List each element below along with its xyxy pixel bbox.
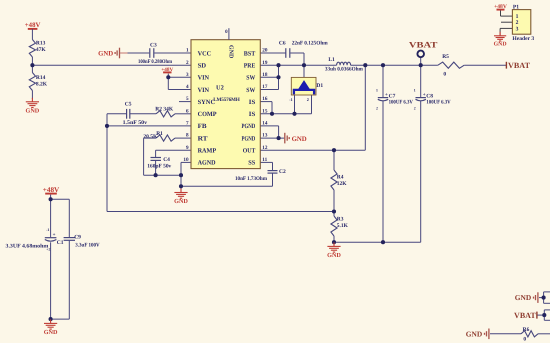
svg-text:R13: R13 (36, 40, 46, 46)
svg-text:5: 5 (186, 96, 189, 102)
svg-text:C4: C4 (163, 157, 170, 163)
svg-text:AGND: AGND (198, 160, 216, 167)
P1 pin 3 lead (500, 27, 512, 29)
wire D1 anode pin 2 (311, 93, 313, 114)
connector P1 body (512, 10, 530, 35)
wire OUT pin12 (260, 149, 365, 151)
wire C8 branch upper (420, 65, 422, 97)
svg-text:20: 20 (262, 48, 268, 54)
svg-text:GND: GND (292, 136, 307, 143)
wire corner down to FB net (106, 114, 108, 126)
P1 pin 1 wire (500, 11, 502, 17)
svg-text:GND: GND (26, 107, 40, 114)
wire AGND pin10 (181, 161, 191, 163)
capacitor C4 (151, 158, 162, 161)
wire VBAT port to connector (538, 314, 545, 316)
svg-text:C6: C6 (279, 40, 286, 46)
C7 pin marks (376, 89, 378, 111)
wire GND port to connector (539, 297, 544, 299)
svg-text:7: 7 (186, 121, 189, 127)
wire cap bank top rail (51, 198, 70, 200)
svg-text:LM5576MH: LM5576MH (213, 97, 240, 103)
node cap bank bottom junction (49, 317, 53, 321)
svg-text:GND: GND (515, 293, 531, 302)
svg-text:17: 17 (262, 84, 268, 90)
svg-text:+48V: +48V (494, 4, 507, 10)
svg-text:-1: -1 (289, 97, 293, 102)
wire VIN pin4 (168, 89, 191, 91)
node R13-R14 junction (30, 63, 34, 67)
node AGND rail junction (179, 173, 183, 177)
node C7 ground junction (381, 240, 385, 244)
svg-text:9: 9 (186, 145, 189, 151)
svg-text:+48V: +48V (43, 186, 60, 194)
wire C9 upper (68, 199, 70, 237)
node SS rail junction (179, 184, 183, 188)
svg-text:+: + (385, 93, 388, 98)
U2 exposed pad stub (228, 28, 230, 40)
svg-text:IS: IS (249, 111, 256, 118)
svg-text:C2: C2 (279, 169, 286, 175)
wire RAMP down to C4 (155, 150, 157, 157)
wire AGND down to ground (180, 162, 182, 192)
svg-text:8.2K: 8.2K (36, 81, 48, 87)
wire D1 anode pin 1 (294, 93, 296, 114)
svg-text:RAMP: RAMP (198, 148, 217, 155)
node R4-R3 junction (332, 209, 336, 213)
svg-text:COMP: COMP (198, 111, 217, 118)
wire C2 to SS rail (272, 173, 274, 186)
svg-text:-1: -1 (46, 228, 49, 232)
capacitor C6 (286, 48, 290, 58)
wire R1 corner down to AGND rail (143, 138, 145, 175)
ground under P1 (494, 32, 506, 41)
node R3-ground junction (332, 240, 336, 244)
wire SW pins join switch node (278, 65, 280, 89)
wire SS pin11 (260, 161, 272, 163)
power +48V at VIN (163, 71, 171, 73)
power +48V at P1 (497, 9, 505, 11)
C1 pin marks (46, 228, 50, 251)
wire L1 to R5 (351, 64, 438, 66)
capacitor C7 (378, 98, 388, 101)
svg-text:C1: C1 (57, 240, 64, 246)
wire cap bank bottom rail (51, 318, 70, 320)
svg-text:2: 2 (414, 106, 416, 110)
svg-text:GND: GND (98, 51, 113, 58)
wire switch node down to D1 (303, 65, 305, 81)
wire BST pin20 to C6 (260, 52, 285, 54)
svg-text:D1: D1 (316, 83, 323, 89)
P1 pin 1 lead (501, 15, 513, 17)
node VIN junction (166, 75, 170, 79)
wire VCC pin1 from C3 to U2 (154, 52, 191, 54)
wire VIN pin3 (168, 76, 191, 78)
wire SW pin17 (260, 89, 278, 91)
wire C8 branch lower (420, 101, 422, 243)
svg-text:GND: GND (228, 45, 234, 59)
svg-text:VBAT: VBAT (508, 61, 531, 70)
svg-text:8: 8 (186, 133, 189, 139)
wire R4 bottom stem (333, 190, 335, 212)
svg-text:4: 4 (186, 84, 189, 90)
resistor R1 (156, 135, 175, 141)
wire GND port to R6 (490, 333, 521, 335)
wire FB net horizontal to R4/R3 node (107, 211, 334, 213)
wire PGND join (278, 126, 280, 138)
node VBAT fragment junction (542, 313, 546, 317)
wire VCC pin1 from GND port to C3 (120, 52, 149, 54)
diode D1 triangle (299, 81, 309, 89)
wire IS pin15 (260, 113, 311, 115)
inductor L1 (337, 62, 351, 65)
capacitor C1 (45, 238, 57, 242)
C8 pin marks (414, 89, 416, 111)
wire R2 to C5 (130, 113, 156, 115)
node C7 junction (381, 63, 385, 67)
svg-text:11: 11 (262, 157, 267, 163)
wire AGND rail (144, 174, 181, 176)
svg-text:GND: GND (327, 252, 341, 259)
svg-text:15: 15 (262, 108, 268, 114)
wire SS down to C2 (272, 162, 274, 170)
svg-text:VIN: VIN (198, 75, 210, 82)
svg-text:160pF 50v: 160pF 50v (147, 164, 171, 170)
svg-text:U2: U2 (216, 85, 224, 92)
svg-text:1: 1 (516, 14, 519, 20)
svg-text:+: + (53, 233, 56, 238)
wire +48V drop to VIN pins (167, 74, 169, 90)
node GND fragment junction (542, 296, 546, 300)
svg-text:PRE: PRE (244, 63, 256, 70)
svg-text:PGND: PGND (242, 135, 256, 142)
svg-text:1: 1 (376, 89, 378, 93)
svg-text:VCC: VCC (198, 50, 212, 57)
svg-text:C9: C9 (74, 235, 81, 241)
svg-text:R5: R5 (442, 54, 449, 60)
svg-text:3.3uF 100V: 3.3uF 100V (75, 242, 99, 248)
wire IS pin16 corner down (271, 102, 273, 114)
svg-text:100nF 0.280Ohm: 100nF 0.280Ohm (138, 59, 172, 65)
svg-text:3: 3 (186, 72, 189, 78)
svg-text:100UF 6.3V: 100UF 6.3V (389, 99, 413, 105)
svg-text:R14: R14 (36, 75, 46, 81)
op-amp U2 LM5576MH body (191, 40, 260, 169)
svg-text:100UF 6.3V: 100UF 6.3V (426, 99, 450, 105)
svg-text:12: 12 (262, 145, 268, 151)
svg-text:3.3UF 4.68mohm: 3.3UF 4.68mohm (6, 244, 49, 250)
port GND at R6 (485, 329, 489, 340)
svg-text:IS: IS (249, 99, 256, 106)
P1 pin 2 lead (501, 21, 512, 23)
svg-text:1.5nF 50v: 1.5nF 50v (123, 120, 148, 126)
wire C5 to corner (107, 113, 127, 115)
capacitor C3 (150, 48, 154, 58)
svg-text:GND: GND (174, 198, 188, 205)
svg-text:47K: 47K (36, 47, 47, 53)
wire +48V to R13 (31, 29, 33, 40)
wire FB pin7 (107, 125, 191, 127)
ground under cap bank (44, 319, 57, 329)
svg-text:0: 0 (523, 336, 526, 342)
wire R13 to R14 (31, 57, 33, 73)
wire +48V stem to cap bank (50, 195, 52, 200)
wire PGND pin14 (260, 125, 278, 127)
power +48V at R13 (28, 28, 38, 30)
node FB junction (105, 124, 109, 128)
svg-text:10: 10 (183, 157, 189, 163)
svg-text:1: 1 (414, 89, 416, 93)
svg-text:2: 2 (307, 97, 309, 102)
resistor R3 (331, 216, 337, 236)
svg-text:OUT: OUT (243, 148, 256, 155)
capacitor C5 (127, 109, 130, 119)
node IS junction (270, 112, 274, 116)
svg-text:6: 6 (186, 108, 189, 114)
wire BST corner down to switch node (303, 53, 305, 65)
node PGND junction (277, 136, 281, 140)
wire C7 branch upper (382, 65, 384, 97)
svg-text:20.5K: 20.5K (143, 134, 158, 140)
wire C6 to corner (290, 52, 304, 54)
svg-text:FB: FB (198, 123, 208, 130)
svg-text:13: 13 (262, 133, 268, 139)
wire R3 bottom stem (333, 236, 335, 242)
diode D1 cathode bar (294, 90, 314, 95)
svg-text:L1: L1 (328, 57, 335, 63)
node D1 anode junction (292, 112, 296, 116)
svg-text:22nF 0.125Ohm: 22nF 0.125Ohm (292, 40, 328, 46)
svg-text:18: 18 (262, 72, 268, 78)
wire R4 top stem (333, 150, 335, 170)
svg-text:VIN: VIN (198, 87, 210, 94)
svg-text:R4: R4 (337, 174, 344, 180)
svg-text:VBAT: VBAT (409, 39, 438, 49)
ground under R3 (327, 242, 340, 252)
svg-text:PGND: PGND (242, 123, 256, 130)
svg-text:SD: SD (198, 63, 207, 70)
wire SYNC pin5 stub (179, 101, 191, 103)
svg-text:GND: GND (44, 329, 58, 336)
svg-text:+48V: +48V (25, 22, 41, 29)
wire C7 branch lower (382, 101, 384, 243)
wire R14 to ground (31, 91, 33, 100)
wire R5 to VBAT port (464, 64, 506, 66)
wire IS pin16 (260, 101, 272, 103)
capacitor C2 (268, 171, 278, 174)
svg-text:R2 34K: R2 34K (155, 106, 174, 112)
wire SS return rail (181, 185, 273, 187)
svg-text:GND: GND (494, 41, 507, 47)
wire SD pin2 from R13/R14 node to U2 (32, 64, 191, 66)
svg-text:+48V: +48V (161, 67, 173, 73)
wire R1 to corner (144, 137, 156, 139)
node BST-switch junction (302, 63, 306, 67)
node RAMP-AGND rail junction (154, 173, 158, 177)
port GND stub tint (120, 52, 127, 54)
svg-text:SS: SS (248, 160, 255, 167)
wire ground rail under R3 (334, 241, 421, 243)
resistor R6 (521, 331, 538, 337)
resistor R2 (156, 111, 175, 117)
ground under U2 (174, 189, 187, 199)
svg-text:3: 3 (516, 26, 519, 32)
port VBAT right (505, 62, 507, 69)
wire RAMP pin9 (156, 149, 191, 151)
node SW pin18 junction (276, 75, 280, 79)
ground under R14 (26, 98, 39, 108)
port VBAT lower right (536, 312, 538, 319)
wire RT pin8 to R1 (175, 137, 191, 139)
connector fragment upper (544, 292, 550, 303)
svg-text:10nF 1.73Ohm: 10nF 1.73Ohm (235, 176, 267, 182)
svg-text:Header 3: Header 3 (512, 36, 534, 42)
wire C4 down to AGND rail (155, 161, 157, 176)
wire R3 top stem (333, 212, 335, 217)
node cap bank top junction (49, 197, 53, 201)
power +48V at cap bank (45, 193, 57, 195)
svg-text:C3: C3 (150, 42, 157, 48)
svg-text:R6: R6 (523, 327, 530, 333)
svg-text:0: 0 (443, 71, 446, 77)
svg-text:SYNC: SYNC (198, 99, 216, 106)
wire C9 lower (68, 241, 70, 320)
connector fragment lower (544, 310, 550, 320)
svg-text:12K: 12K (337, 181, 348, 187)
resistor R14 (29, 73, 35, 91)
resistor R4 (331, 170, 337, 190)
node OUT-R4 junction (332, 148, 336, 152)
svg-text:16: 16 (262, 96, 268, 102)
node C8-VBAT junction (419, 63, 423, 67)
wire OUT up to VBAT rail (364, 65, 366, 150)
node VBAT open terminal (417, 51, 424, 58)
wire COMP pin6 to R2 (175, 113, 191, 115)
svg-text:C5: C5 (125, 102, 132, 108)
svg-text:R3: R3 (337, 216, 344, 222)
svg-text:1: 1 (186, 48, 189, 54)
node SW-switch junction a (276, 63, 280, 67)
svg-text:5.1K: 5.1K (337, 223, 349, 229)
wire R6 to edge (538, 333, 550, 335)
wire VBAT node stem (420, 57, 422, 65)
port GND upper right (534, 292, 538, 303)
wire C1 upper (50, 199, 52, 237)
wire C1 lower (50, 242, 52, 319)
svg-text:2: 2 (516, 20, 519, 26)
wire FB net vertical (106, 126, 108, 212)
capacitor C9 (64, 238, 75, 241)
svg-text:RT: RT (198, 135, 209, 142)
port GND at C3 (115, 48, 119, 59)
svg-text:SW: SW (246, 87, 255, 94)
svg-text:BST: BST (244, 50, 256, 57)
svg-text:19: 19 (262, 60, 268, 66)
port GND at PGND (285, 133, 289, 144)
svg-text:VBAT: VBAT (514, 311, 536, 320)
svg-text:SW: SW (246, 75, 255, 82)
diode D1 body (291, 77, 316, 95)
svg-text:GND: GND (466, 330, 482, 339)
node OUT-VBAT junction (363, 63, 367, 67)
resistor R13 (29, 40, 35, 58)
svg-text:+: + (423, 93, 426, 98)
svg-text:33uh 0.0366Ohm: 33uh 0.0366Ohm (325, 66, 363, 72)
wire SW pin18 (260, 76, 278, 78)
svg-text:2: 2 (376, 106, 378, 110)
svg-text:P1: P1 (513, 5, 519, 11)
wire PRE pin19 to L1 (260, 64, 336, 66)
capacitor C8 (416, 98, 426, 101)
P1 pin 3 ground wire (499, 28, 501, 35)
wire PGND pin13 to GND port (260, 137, 284, 139)
resistor R5 (438, 62, 464, 68)
svg-text:2: 2 (186, 60, 189, 66)
svg-text:14: 14 (262, 121, 268, 127)
